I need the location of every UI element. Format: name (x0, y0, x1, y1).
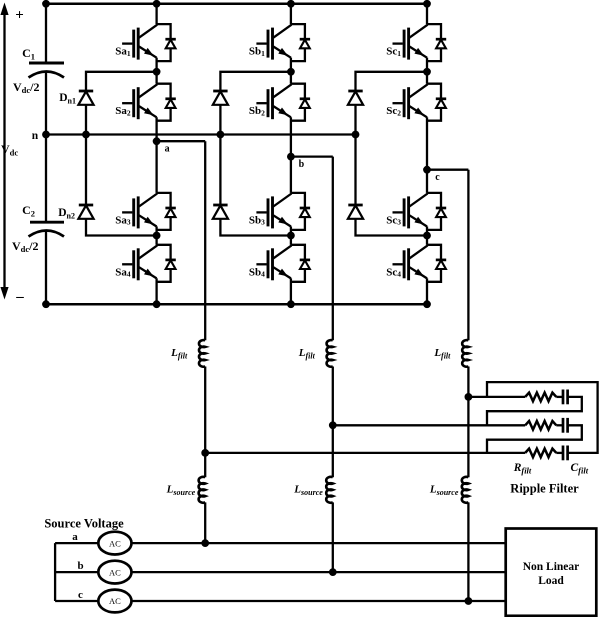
wire: Sc4 emitter to bottom rail (426, 278, 428, 304)
wire: Sa2 emitter down to phase a tap and Sa3 collector (155, 117, 157, 193)
wire: phase c vertical down to filter inductor (467, 170, 469, 341)
wire: left DC bus lower segment (45, 231, 47, 305)
label Lfilt phase b (298, 347, 316, 361)
IGBT Sc2 (393, 84, 428, 119)
svg-text:a: a (72, 531, 78, 543)
label Sc1 (386, 46, 401, 58)
wire: Sa3 emitter to junction (155, 226, 157, 235)
label Sa4 (115, 266, 131, 278)
diode DSb1 anti-parallel with Sb1 (291, 24, 310, 61)
junction: Sc3/Sc4 midpoint (423, 232, 431, 240)
label Lsource phase c (429, 484, 459, 498)
label Sc3 (386, 214, 401, 226)
wire: bottom DC rail (46, 303, 427, 306)
label a (phase tap) (165, 144, 170, 155)
diode DSc2 anti-parallel with Sc2 (427, 84, 446, 121)
label a (source phase) (72, 531, 78, 543)
AC source phase a (98, 532, 131, 555)
svg-text:a: a (165, 144, 170, 155)
diode Dc6 (lower clamp, leg c) (348, 205, 363, 219)
capacitor C2 (29, 222, 65, 236)
wire: upper clamp branch leg b (to Sb1/Sb2 junction) (220, 72, 291, 135)
node phase c tap (423, 166, 431, 174)
diode DSa3 anti-parallel with Sa3 (157, 193, 176, 230)
junction: leg b at top rail (287, 0, 295, 8)
resistor Rfilt branch 3 (phase a) (525, 449, 556, 458)
wire: junction to Sb2 collector (290, 72, 292, 84)
junction: top-left rail corner (42, 0, 50, 8)
diode DSa1 anti-parallel with Sa1 (157, 24, 176, 61)
IGBT Sb1 (256, 25, 291, 60)
wire: lower clamp branch leg a (to Sa3/Sa4 junction) (86, 135, 157, 236)
wire: Sc1 emitter to junction (426, 58, 428, 72)
label Cfilt (571, 462, 589, 476)
junction: leg c at top rail (423, 0, 431, 8)
wire: ripple filter feed from phase a (205, 452, 525, 454)
svg-text:c: c (435, 172, 440, 183)
wire: junction to Sa4 collector (155, 236, 157, 245)
diode DSc1 anti-parallel with Sc1 (427, 24, 446, 61)
label c (source phase) (78, 589, 83, 601)
label Sb1 (249, 46, 265, 58)
label Sb4 (249, 266, 265, 278)
wire: neutral rail n (46, 133, 356, 135)
wire: source line c to load (132, 600, 506, 602)
label Vdc (1, 142, 18, 158)
label Sb2 (249, 105, 265, 117)
wire: junction to Sc2 collector (426, 72, 428, 84)
junction: phase b ripple-filter tap (329, 421, 337, 429)
wire: phase a vertical from Lsource to source line (204, 502, 206, 543)
IGBT Sc4 (393, 245, 428, 280)
svg-text:Ripple Filter: Ripple Filter (510, 482, 579, 496)
junction: phase c joins source line c (465, 597, 473, 605)
IGBT Sb4 (256, 245, 291, 280)
capacitor Cfilt branch 3 (phase a) (563, 446, 568, 461)
capacitor Cfilt branch 1 (phase c) (563, 390, 568, 405)
label C1 (22, 46, 35, 62)
IGBT Sa4 (122, 245, 157, 280)
diode Dc5 (upper clamp, leg c) (348, 91, 363, 105)
junction: Sa3/Sa4 midpoint (153, 232, 161, 240)
wire: Sb2 emitter down to phase b tap and Sb3 collector (290, 117, 292, 193)
diode Dn1 (upper clamp, leg a) (78, 91, 93, 105)
svg-text:b: b (77, 560, 83, 572)
wire: branch 2 wrap to branch 3 input (487, 425, 582, 453)
label Sc2 (386, 105, 401, 117)
wire: upper clamp branch leg c (to Sc1/Sc2 junction) (356, 72, 428, 135)
label Rfilt (513, 462, 532, 476)
junction: leg c at bottom rail (423, 300, 431, 308)
label Vdc/2 upper (13, 80, 40, 95)
junction: phase a joins source line a (201, 539, 209, 547)
diode DSc3 anti-parallel with Sc3 (427, 193, 446, 230)
wire: phase b output horizontal (291, 155, 333, 157)
wire: source line a left segment (55, 542, 98, 544)
label Dn1 (59, 92, 76, 106)
wire: lower clamp branch leg c (to Sc3/Sc4 junction) (356, 135, 428, 236)
svg-text:Source Voltage: Source Voltage (44, 517, 124, 531)
wire: ripple filter feed from phase b (333, 424, 525, 426)
wire: Sc2 emitter down to phase c tap and Sc3 collector (426, 117, 428, 193)
wire: source neutral bus vertical (54, 543, 56, 601)
wire: phase c vertical between Lfilt and Lsource (467, 367, 469, 478)
junction: bottom-left rail corner (42, 300, 50, 308)
wire: R to C branch 2 (556, 424, 563, 426)
AC source phase b (98, 561, 131, 584)
IGBT Sa1 (122, 25, 157, 60)
wire: junction to Sc4 collector (426, 236, 428, 245)
junction: leg b at bottom rail (287, 300, 295, 308)
svg-text:b: b (299, 159, 305, 170)
IGBT Sc1 (393, 25, 428, 60)
wire: phase a vertical between Lfilt and Lsource (204, 367, 206, 478)
label Sa3 (115, 214, 131, 226)
wire: Sa4 emitter to bottom rail (155, 278, 157, 304)
label Ripple Filter (510, 482, 579, 496)
wire: junction to Sb4 collector (290, 236, 292, 245)
inductor Lfilt phase a (199, 340, 205, 367)
wire: leg b from top rail to Sb1 collector (290, 4, 292, 24)
label C2 (22, 203, 35, 219)
wire: phase a output horizontal (157, 140, 206, 142)
IGBT Sa2 (122, 84, 157, 119)
wire: phase b vertical between Lfilt and Lsource (332, 367, 334, 478)
inductor Lfilt phase b (327, 340, 333, 367)
IGBT Sc3 (393, 194, 428, 229)
diode DSb3 anti-parallel with Sb3 (291, 193, 310, 230)
junction: phase b joins source line b (329, 568, 337, 576)
diode DSb4 anti-parallel with Sb4 (291, 245, 310, 282)
svg-text:n: n (32, 130, 39, 142)
resistor Rfilt branch 2 (phase b) (525, 421, 556, 430)
wire: left DC bus between C1 and n (45, 72, 47, 135)
svg-text:+: + (15, 8, 24, 24)
wire: phase c vertical from Lsource to source line (467, 502, 469, 601)
svg-text:AC: AC (109, 596, 121, 606)
wire: left DC bus between n and C2 (45, 135, 47, 223)
svg-text:–: – (15, 289, 24, 305)
label Source Voltage (44, 517, 124, 531)
svg-text:c: c (78, 589, 83, 601)
label Vdc/2 lower (12, 239, 39, 254)
IGBT Sb3 (256, 194, 291, 229)
wire: source line a to load (132, 542, 506, 544)
label Sc4 (386, 266, 401, 278)
wire: leg a from top rail to Sa1 collector (155, 4, 157, 24)
wire: left DC bus upper segment (45, 4, 47, 63)
wire: junction to Sa2 collector (155, 72, 157, 84)
resistor Rfilt branch 1 (phase c) (525, 393, 556, 402)
label n (32, 130, 39, 142)
wire: Sa1 emitter to junction (155, 58, 157, 72)
svg-text:Load: Load (538, 575, 564, 587)
label b (phase tap) (299, 159, 305, 170)
junction: Sb1/Sb2 midpoint (287, 68, 295, 76)
diode DSc4 anti-parallel with Sc4 (427, 245, 446, 282)
svg-text:Non Linear: Non Linear (523, 561, 580, 573)
inductor Lfilt phase c (462, 340, 468, 367)
wire: phase c output horizontal (427, 169, 468, 171)
wire: phase b vertical down to filter inductor (332, 157, 334, 341)
junction: clamp leg b at neutral rail (217, 131, 225, 139)
diode Db5 (upper clamp, leg b) (213, 91, 228, 105)
diode DSa4 anti-parallel with Sa4 (157, 245, 176, 282)
label c (phase tap) (435, 172, 440, 183)
junction: phase c ripple-filter tap (465, 393, 473, 401)
svg-text:AC: AC (109, 538, 121, 548)
wire: upper clamp branch leg a (to Sa1/Sa2 junction) (86, 72, 157, 135)
label Sa2 (115, 105, 131, 117)
wire: source line c left segment (55, 600, 98, 602)
wire: Sb4 emitter to bottom rail (290, 278, 292, 304)
wire: R to C branch 3 (556, 452, 563, 454)
load: Non Linear Load box (506, 529, 597, 616)
wire: ripple filter feed from phase c (468, 396, 525, 398)
label Sb3 (249, 214, 265, 226)
wire: Sc3 emitter to junction (426, 226, 428, 235)
wire: Sb1 emitter to junction (290, 58, 292, 72)
wire: R to C branch 1 (556, 396, 563, 398)
diode Dn2 (lower clamp, leg a) (78, 205, 93, 219)
IGBT Sa3 (122, 194, 157, 229)
Vdc bus voltage arrow (0, 3, 8, 300)
svg-text:AC: AC (109, 567, 121, 577)
diode DSb2 anti-parallel with Sb2 (291, 84, 310, 121)
label + (positive DC rail) (15, 8, 24, 24)
label Dn2 (58, 207, 75, 221)
wire: phase b vertical from Lsource to source line (332, 502, 334, 572)
label Lfilt phase c (433, 347, 451, 361)
IGBT Sb2 (256, 84, 291, 119)
wire: branch 1 wrap to branch 2 input (487, 397, 582, 425)
junction: leg a at top rail (153, 0, 161, 8)
AC source phase c (98, 590, 131, 613)
junction: Sb3/Sb4 midpoint (287, 232, 295, 240)
junction: clamp leg c at neutral rail (352, 131, 360, 139)
wire: source line b left segment (55, 571, 98, 573)
label Sa1 (115, 46, 131, 58)
junction: phase a ripple-filter tap (201, 449, 209, 457)
capacitor Cfilt branch 2 (phase b) (563, 418, 568, 433)
wire: Sb3 emitter to junction (290, 226, 292, 235)
diode DSa2 anti-parallel with Sa2 (157, 84, 176, 121)
node phase a tap (153, 137, 161, 145)
wire: source line b to load (132, 571, 506, 573)
inductor Lsource phase a (199, 477, 206, 503)
wire: leg c from top rail to Sc1 collector (426, 4, 428, 24)
wire: branch 3 outer return to branch 1 input (487, 382, 598, 453)
junction: Sc1/Sc2 midpoint (423, 68, 431, 76)
capacitor C1 (29, 63, 65, 78)
junction: leg a at bottom rail (153, 300, 161, 308)
wire: top DC rail (46, 3, 427, 6)
label Lsource phase a (166, 484, 196, 498)
junction: clamp leg a at neutral rail (82, 131, 90, 139)
diode Db6 (lower clamp, leg b) (213, 205, 228, 219)
label - (negative DC rail) (15, 289, 24, 305)
wire: lower clamp branch leg b (to Sb3/Sb4 junction) (220, 135, 291, 236)
junction: Sa1/Sa2 midpoint (153, 68, 161, 76)
inductor Lsource phase b (326, 477, 333, 503)
label Lsource phase b (293, 484, 323, 498)
inductor Lsource phase c (462, 477, 469, 503)
wire: phase a vertical down to filter inductor (204, 141, 206, 340)
node n (42, 131, 50, 139)
label Lfilt phase a (170, 347, 188, 361)
label b (source phase) (77, 560, 83, 572)
node phase b tap (287, 153, 295, 161)
